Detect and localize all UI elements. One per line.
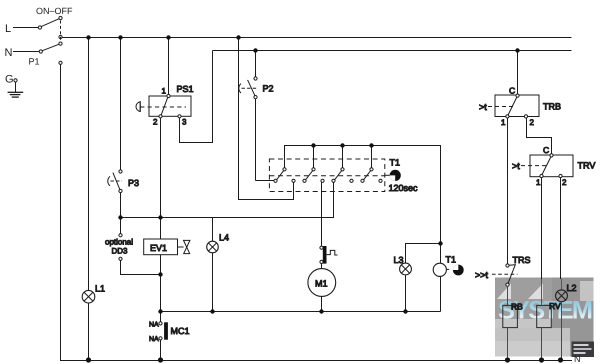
timer contact 3 <box>332 168 353 183</box>
svg-text:1: 1 <box>536 178 541 187</box>
wire timer c2b to motor <box>321 182 323 246</box>
pushbutton P3 <box>108 38 122 234</box>
svg-text:>t: >t <box>512 161 520 171</box>
wire timer c3a to EV line <box>121 182 334 217</box>
svg-text:P1: P1 <box>29 57 40 67</box>
junction: L3 branch <box>438 241 442 245</box>
junction: top bus / timer feed <box>236 35 240 39</box>
svg-text:L: L <box>5 23 11 35</box>
switch P1 <box>38 16 62 64</box>
thermostat TRS <box>492 264 518 306</box>
wire TRV-1 to RB coil area <box>541 178 543 279</box>
lamp L1 <box>82 38 95 361</box>
svg-text:T1: T1 <box>446 255 457 265</box>
motor M1 <box>308 269 336 312</box>
svg-text:L3: L3 <box>394 255 404 265</box>
wire PS1-2 to EV1 <box>160 118 162 239</box>
ground <box>8 79 24 97</box>
junction: bus2 / P2 <box>253 48 257 52</box>
timer contact 4 <box>361 168 382 183</box>
timer contact 2 <box>303 168 324 183</box>
svg-text:2: 2 <box>153 118 158 127</box>
svg-text:MC1: MC1 <box>171 326 190 336</box>
node N <box>13 51 39 53</box>
contactor MC1 <box>159 322 168 361</box>
junction: lamp row / L4 <box>210 309 214 313</box>
svg-text:1: 1 <box>162 87 167 96</box>
wire bus2 from PS1-3 <box>213 50 572 52</box>
svg-text:P2: P2 <box>263 84 274 94</box>
junction: P3 / EV row <box>118 215 122 219</box>
svg-text:P3: P3 <box>128 178 139 188</box>
svg-text:RB: RB <box>511 302 523 312</box>
junction: lamp row / L3 <box>403 309 407 313</box>
junction: timer feed 4 <box>369 143 373 147</box>
junction: EV row / EV1 <box>158 215 162 219</box>
svg-text:TRB: TRB <box>543 102 561 112</box>
lamp L4 <box>207 218 219 312</box>
svg-text:ON–OFF: ON–OFF <box>36 6 73 16</box>
timer feed wire <box>285 146 441 244</box>
timer clock symbol <box>390 170 401 181</box>
svg-text:RV: RV <box>549 301 561 311</box>
wire EV1 to MC1 <box>160 255 162 322</box>
wire TRV-2 to L2 <box>560 178 562 279</box>
node L <box>13 27 38 29</box>
junction: top bus / L1 <box>86 35 90 39</box>
junction: bottom bus / MC1 <box>158 357 163 362</box>
lamp T1 <box>433 244 464 312</box>
connector DD3 optional <box>119 234 161 275</box>
svg-text:PS1: PS1 <box>177 84 194 94</box>
watermark <box>495 278 594 358</box>
svg-text:NA: NA <box>149 336 159 343</box>
thermal protector <box>320 246 338 268</box>
timer T1 dashed box <box>269 159 389 192</box>
lamp L2 <box>556 290 568 361</box>
svg-text:DD3: DD3 <box>112 246 129 255</box>
junction: timer feed 3 <box>340 143 344 147</box>
relay coil RV <box>537 305 552 360</box>
relay contact TRV <box>521 154 573 178</box>
junction: top bus / P3 <box>118 35 122 39</box>
svg-text:M1: M1 <box>315 278 328 288</box>
svg-text:L2: L2 <box>567 283 577 293</box>
junction: bottom bus / RB <box>505 357 510 362</box>
svg-text:1: 1 <box>501 118 506 127</box>
junction: DD3 / EV1 line <box>158 272 162 276</box>
wire PS1-3 to bus2 <box>180 51 213 143</box>
svg-text:L4: L4 <box>219 233 229 243</box>
svg-text:>>t: >>t <box>475 270 489 280</box>
wire TRB-2 to TRV-C <box>527 118 552 154</box>
svg-text:EV1: EV1 <box>150 243 167 253</box>
svg-text:NA: NA <box>149 321 159 328</box>
svg-text:N: N <box>574 354 581 364</box>
wire TRB-1 to TRS <box>507 118 509 264</box>
svg-text:C: C <box>543 145 549 155</box>
svg-text:120sec: 120sec <box>389 183 419 193</box>
wire N drop <box>61 64 573 360</box>
svg-text:L1: L1 <box>95 284 105 294</box>
relay coil RB <box>503 305 518 360</box>
junction: bottom bus / L2 <box>558 357 563 362</box>
lamp L3 <box>400 244 441 312</box>
timer contact 1 <box>274 168 295 183</box>
wire top bus L <box>62 37 572 39</box>
junction: bottom bus / RV <box>539 357 544 362</box>
junction: timer feed 2 <box>311 143 315 147</box>
svg-text:N: N <box>5 47 13 59</box>
svg-text:T1: T1 <box>390 158 401 168</box>
pushbutton P2 <box>239 51 274 181</box>
svg-text:3: 3 <box>182 118 187 127</box>
solenoid EV1 <box>144 239 190 255</box>
svg-text:TRV: TRV <box>578 161 596 171</box>
junction: bus2 / TRB <box>515 48 519 52</box>
wire lamp row y=311 <box>161 311 441 313</box>
junction: bottom bus / L1 <box>86 357 91 362</box>
svg-text:G: G <box>5 74 14 86</box>
junction: top bus / PS1 <box>166 35 170 39</box>
junction: lamp row / M1 <box>319 309 323 313</box>
svg-text:optional: optional <box>105 237 133 246</box>
wire L-bus to timer contact 1b <box>239 38 294 200</box>
svg-text:TRS: TRS <box>513 255 531 265</box>
junction: lamp row / MC1 <box>158 309 162 313</box>
svg-text:2: 2 <box>562 178 567 187</box>
relay contact TRB <box>488 51 539 119</box>
svg-text:2: 2 <box>530 118 535 127</box>
pressure switch PS1 <box>136 38 191 118</box>
svg-text:>t: >t <box>479 102 487 112</box>
svg-text:C: C <box>509 85 515 95</box>
